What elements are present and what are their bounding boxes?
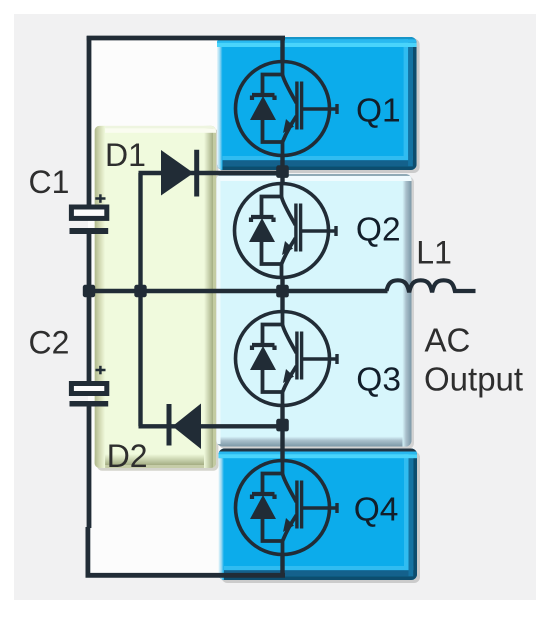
capacitor C1 <box>70 194 109 231</box>
node: junction D1/Q1/Q2 <box>276 165 289 178</box>
wire: diode branch vertical <box>138 173 142 426</box>
inductor L1 <box>387 280 476 292</box>
IGBT module block Q1 (blue panel) <box>217 37 420 173</box>
svg-text:Q3: Q3 <box>356 362 401 399</box>
diode clamp block (yellow panel) <box>95 126 219 471</box>
IGBT module block Q4 (blue panel) <box>219 449 421 584</box>
svg-text:L1: L1 <box>416 234 452 270</box>
wire: D2 output wire <box>139 424 283 428</box>
node: junction diode branch midpoint <box>134 285 146 297</box>
circuit loop interior (white) <box>88 37 285 576</box>
IGBT module block Q2/Q3 (light cyan panel) <box>217 174 415 449</box>
wire: bottom bus (DC-) <box>86 573 286 578</box>
diode D1 <box>161 150 197 197</box>
node: junction midpoint at chain <box>276 285 289 298</box>
svg-text:AC: AC <box>425 322 471 359</box>
transistor Q2 (IGBT with antiparallel diode) <box>235 183 337 279</box>
transistor Q4 (IGBT with antiparallel diode) <box>236 460 338 556</box>
svg-text:D2: D2 <box>107 438 148 474</box>
node: junction rail midpoint <box>83 285 95 297</box>
wire: midpoint bus to inductor <box>89 289 388 293</box>
transistor Q1 (IGBT with antiparallel diode) <box>236 61 338 157</box>
wire: left rail <box>87 36 92 205</box>
wire: D1 output wire <box>139 171 283 175</box>
capacitor C2 <box>70 366 109 404</box>
svg-text:C2: C2 <box>29 325 70 361</box>
diode D2 <box>169 404 201 450</box>
svg-text:Q1: Q1 <box>356 93 401 130</box>
wire: phase chain vertical segments <box>280 36 284 62</box>
svg-text:Q2: Q2 <box>356 212 401 249</box>
svg-text:Q4: Q4 <box>354 492 399 529</box>
wire: top bus (DC+) <box>87 36 285 41</box>
svg-text:D1: D1 <box>105 137 146 173</box>
transistor Q3 (IGBT with antiparallel diode) <box>236 311 338 407</box>
node: junction D2/Q3/Q4 <box>276 419 289 432</box>
svg-text:C1: C1 <box>29 164 70 200</box>
svg-text:Output: Output <box>424 361 523 398</box>
